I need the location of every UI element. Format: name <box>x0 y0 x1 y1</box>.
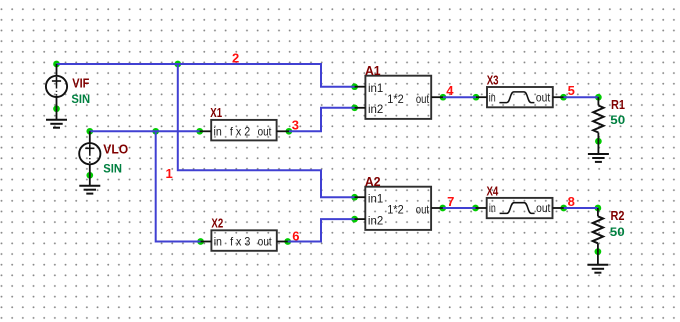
svg-text:2: 2 <box>232 50 239 65</box>
svg-text:X3: X3 <box>487 73 499 88</box>
svg-text:in: in <box>214 124 222 138</box>
svg-text:R1: R1 <box>611 97 625 112</box>
svg-text:1: 1 <box>166 166 173 181</box>
svg-text:f x 2: f x 2 <box>230 124 251 138</box>
svg-text:out: out <box>258 235 272 249</box>
svg-text:6: 6 <box>292 228 299 243</box>
svg-text:50: 50 <box>610 113 625 127</box>
svg-text:4: 4 <box>446 83 454 98</box>
svg-text:8: 8 <box>568 194 575 209</box>
svg-text:1*2: 1*2 <box>387 203 404 217</box>
svg-text:f x 3: f x 3 <box>230 235 251 249</box>
svg-text:out: out <box>416 203 430 217</box>
svg-text:SIN: SIN <box>103 162 122 176</box>
svg-text:out: out <box>416 92 430 106</box>
svg-text:X2: X2 <box>211 215 223 230</box>
svg-text:X1: X1 <box>210 105 222 120</box>
svg-text:R2: R2 <box>611 208 625 223</box>
svg-text:in: in <box>489 90 496 104</box>
svg-text:out: out <box>258 124 272 138</box>
svg-text:A1: A1 <box>365 63 381 78</box>
svg-text:in: in <box>214 235 222 249</box>
svg-text:SIN: SIN <box>71 92 90 106</box>
svg-text:VIF: VIF <box>72 75 89 90</box>
svg-text:1*2: 1*2 <box>387 92 404 106</box>
svg-text:X4: X4 <box>487 184 499 199</box>
svg-text:out: out <box>536 201 551 215</box>
svg-text:VLO: VLO <box>103 141 128 156</box>
svg-text:out: out <box>536 90 551 104</box>
svg-text:3: 3 <box>292 117 299 132</box>
svg-text:in1: in1 <box>368 81 384 95</box>
svg-text:7: 7 <box>447 194 454 209</box>
svg-text:in1: in1 <box>368 191 384 205</box>
svg-text:in: in <box>489 201 496 215</box>
svg-text:50: 50 <box>610 225 625 239</box>
svg-text:in2: in2 <box>368 102 384 116</box>
svg-text:5: 5 <box>568 83 575 98</box>
svg-text:in2: in2 <box>368 213 384 227</box>
svg-text:A2: A2 <box>365 174 381 189</box>
